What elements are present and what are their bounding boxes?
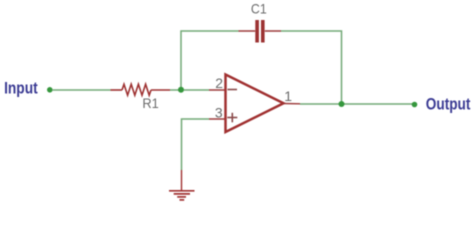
pin 2 lead bbox=[209, 89, 226, 91]
svg-text:C1: C1 bbox=[251, 1, 267, 17]
svg-text:Output: Output bbox=[426, 96, 471, 114]
pin 3 lead bbox=[209, 118, 226, 120]
node A junction bbox=[178, 87, 184, 93]
op-amp U1 triangle bbox=[226, 75, 284, 133]
op-amp minus mark bbox=[228, 89, 238, 91]
node Output terminal bbox=[412, 102, 418, 108]
svg-text:R1: R1 bbox=[142, 95, 159, 111]
wire Input to R1 bbox=[52, 89, 111, 91]
svg-text:1: 1 bbox=[284, 88, 292, 104]
capacitor C1 bbox=[239, 20, 282, 43]
op-amp plus mark bbox=[227, 113, 237, 123]
pin 1 lead bbox=[284, 103, 301, 105]
wire pin 3 to ground run bbox=[182, 119, 210, 170]
node output junction bbox=[339, 101, 345, 107]
wire node A up and right to C1 bbox=[181, 31, 239, 90]
svg-text:3: 3 bbox=[215, 105, 223, 121]
ground stem bbox=[181, 170, 183, 190]
svg-text:Input: Input bbox=[4, 80, 38, 98]
wire C1 to output junction bbox=[281, 31, 342, 104]
wire op-amp output to Output terminal bbox=[300, 103, 414, 105]
node Input terminal bbox=[47, 87, 53, 93]
ground bbox=[169, 191, 195, 200]
wire node A to pin 2 bbox=[184, 89, 209, 91]
resistor R1 bbox=[111, 84, 171, 95]
svg-text:2: 2 bbox=[215, 75, 223, 91]
wire R1 to node A bbox=[170, 89, 181, 91]
